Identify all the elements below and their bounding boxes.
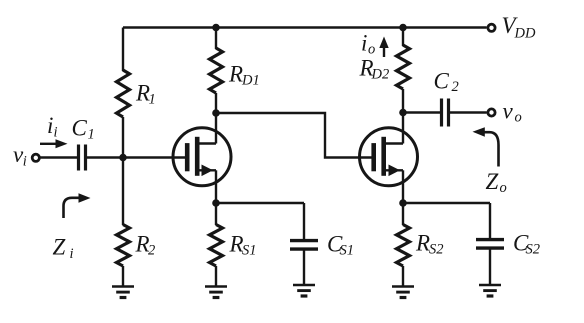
svg-text:1: 1 bbox=[88, 126, 95, 142]
capacitor CS2 bbox=[476, 238, 504, 241]
svg-text:S1: S1 bbox=[340, 242, 355, 258]
wire R1 to gate node bbox=[122, 117, 124, 158]
ground (R2) bbox=[112, 285, 134, 288]
node: rail junction at RD1 bbox=[212, 24, 220, 32]
svg-text:2: 2 bbox=[452, 79, 459, 95]
svg-text:S1: S1 bbox=[242, 242, 257, 258]
wire D2 to C2 bbox=[403, 111, 441, 113]
capacitor C1 bbox=[77, 145, 80, 171]
wire down to CS2 bbox=[489, 203, 491, 240]
svg-text:R: R bbox=[415, 231, 430, 256]
transistor Q1 bbox=[173, 128, 231, 186]
svg-text:R: R bbox=[228, 61, 243, 86]
svg-text:i: i bbox=[23, 154, 27, 170]
svg-text:o: o bbox=[500, 180, 507, 196]
wire C1 to gate node bbox=[87, 156, 123, 158]
wire RD2 to drain node bbox=[402, 89, 404, 144]
resistor RS1 bbox=[215, 203, 217, 225]
svg-text:2: 2 bbox=[148, 243, 155, 259]
terminal vo bbox=[488, 109, 495, 116]
svg-text:C: C bbox=[434, 69, 450, 94]
wire R2 to ground bbox=[122, 266, 124, 287]
resistor R2 bbox=[117, 225, 130, 267]
node drain D2 bbox=[399, 109, 407, 117]
node: rail junction at RD2 bbox=[399, 24, 407, 32]
wire rail to RD1 bbox=[215, 28, 217, 50]
svg-text:D1: D1 bbox=[241, 72, 260, 88]
wire down to CS1 bbox=[303, 203, 305, 241]
wire CS1 to ground bbox=[303, 249, 305, 285]
wire D1 to Q2 gate (crossover) bbox=[216, 113, 372, 158]
svg-text:DD: DD bbox=[514, 26, 536, 42]
node drain D1 bbox=[212, 109, 220, 117]
svg-text:i: i bbox=[54, 125, 58, 141]
svg-text:D2: D2 bbox=[371, 67, 390, 83]
current arrow io bbox=[383, 47, 385, 57]
terminal VDD bbox=[488, 24, 495, 31]
svg-text:Z: Z bbox=[53, 235, 66, 260]
wire Q1 source down bbox=[215, 170, 217, 203]
transistor Q2 bbox=[360, 128, 418, 186]
wire rail to RD2 bbox=[402, 28, 404, 47]
svg-text:v: v bbox=[503, 99, 514, 124]
resistor RD1 bbox=[210, 48, 223, 93]
wire CS2 to ground bbox=[489, 248, 491, 285]
current arrow ii bbox=[40, 143, 56, 145]
top supply rail wire bbox=[123, 26, 487, 28]
svg-text:Z: Z bbox=[486, 169, 499, 194]
wire rail to R1 bbox=[122, 28, 124, 72]
svg-text:1: 1 bbox=[149, 92, 156, 108]
svg-text:i: i bbox=[47, 113, 53, 138]
wire RS2 to ground bbox=[402, 266, 404, 287]
ground (CS2) bbox=[479, 284, 501, 287]
node source S2 bbox=[399, 199, 407, 207]
wire S2 to CS2 bbox=[403, 202, 490, 204]
wire gate node to Q1 gate bbox=[123, 156, 186, 158]
svg-text:i: i bbox=[361, 31, 367, 56]
svg-text:o: o bbox=[368, 42, 375, 58]
node source S1 bbox=[212, 199, 220, 207]
impedance arrow Zi bbox=[64, 198, 80, 218]
ground (RS1) bbox=[205, 285, 227, 288]
wire RD1 to drain node bbox=[215, 93, 217, 144]
ground (CS1) bbox=[293, 284, 315, 287]
resistor RS2 bbox=[402, 203, 404, 225]
svg-text:C: C bbox=[72, 115, 88, 140]
terminal vi input bbox=[32, 154, 39, 161]
resistor RD2 bbox=[397, 45, 410, 89]
wire S1 to CS1 bbox=[216, 202, 304, 204]
svg-text:S2: S2 bbox=[526, 242, 541, 258]
wire RS1 to ground bbox=[215, 266, 217, 287]
svg-text:o: o bbox=[515, 110, 522, 126]
ground (RS2) bbox=[392, 285, 414, 288]
wire gate node to R2 bbox=[122, 158, 124, 226]
wire Q2 source down bbox=[402, 170, 404, 203]
resistor R1 bbox=[117, 70, 130, 117]
svg-text:i: i bbox=[70, 246, 74, 262]
capacitor C2 bbox=[440, 99, 443, 127]
impedance arrow Zo bbox=[485, 132, 499, 166]
wire C2 to vo bbox=[450, 111, 487, 113]
capacitor CS1 bbox=[290, 239, 318, 242]
node gate junction G1 bbox=[119, 154, 127, 162]
svg-text:S2: S2 bbox=[429, 242, 444, 258]
wire vi to C1 bbox=[41, 156, 78, 158]
